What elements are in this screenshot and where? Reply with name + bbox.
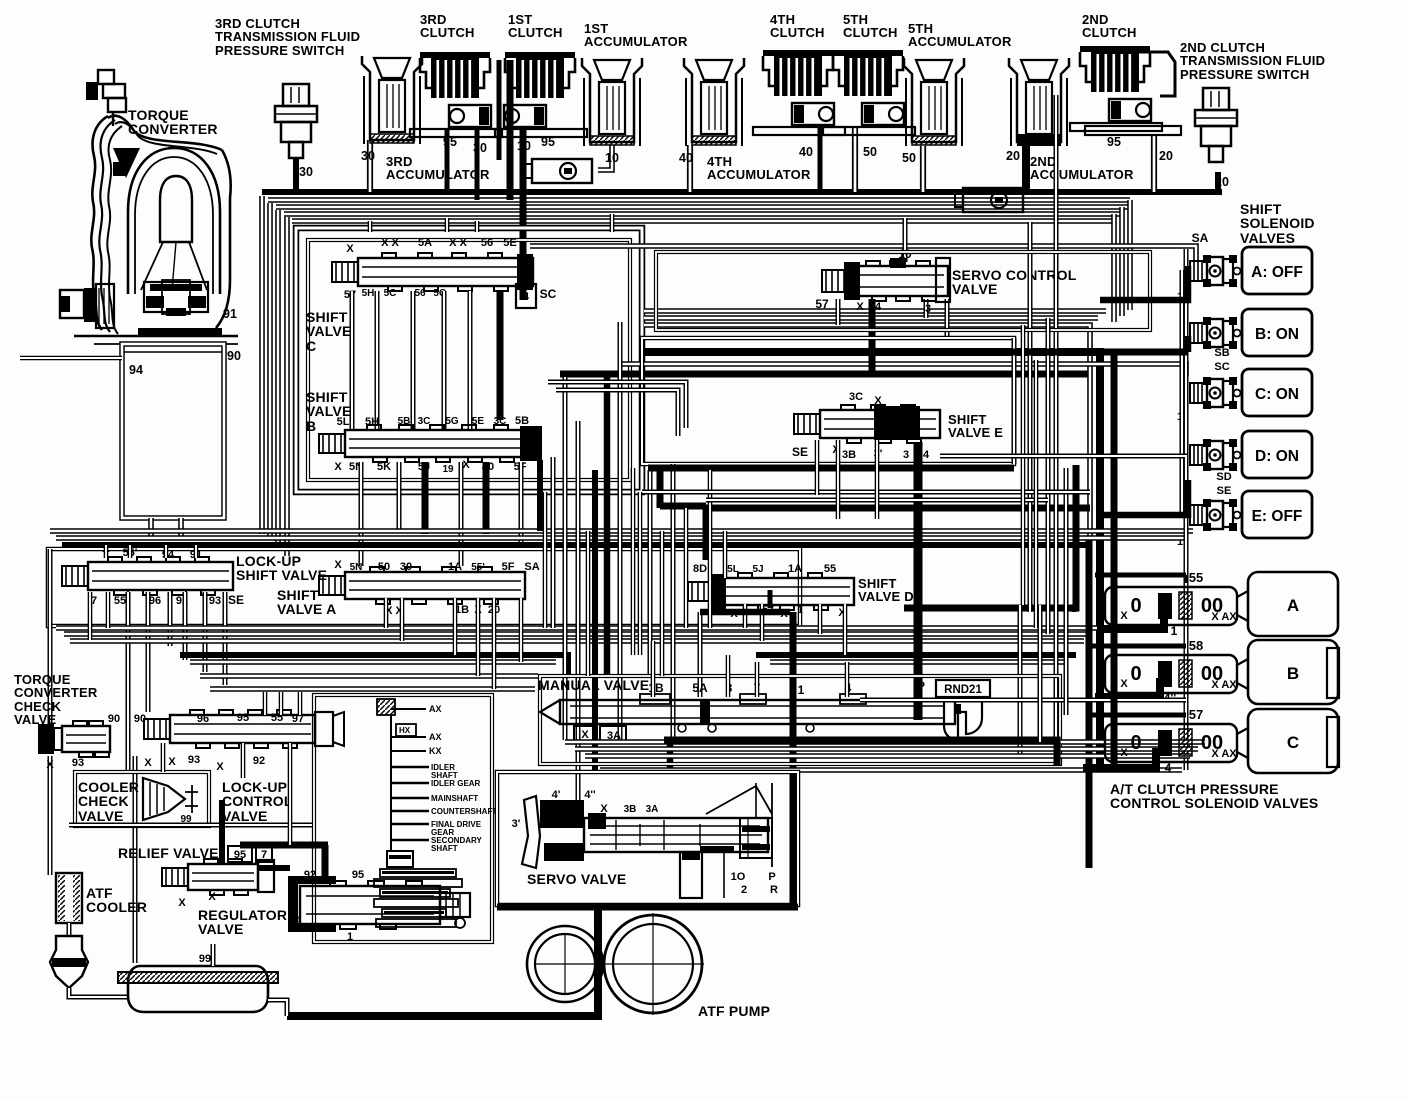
- svg-text:3C: 3C: [418, 416, 431, 427]
- wire thick 670 drop: [667, 739, 674, 772]
- svg-text:CONTROL: CONTROL: [222, 793, 293, 809]
- shift valve C: [332, 253, 533, 291]
- wire A drop 1: [384, 598, 389, 628]
- wire drop e: [223, 592, 228, 685]
- wire low bundle 7: [210, 686, 535, 692]
- wire B port 4: [459, 462, 464, 566]
- svg-text:P: P: [768, 871, 775, 883]
- box cooler check valve: [75, 772, 209, 826]
- svg-text:CLUTCH: CLUTCH: [508, 25, 563, 40]
- wire rv 1040: [1038, 605, 1043, 742]
- svg-text:3: 3: [903, 449, 909, 461]
- svg-text:96: 96: [197, 713, 209, 725]
- wire A drop 4: [476, 598, 481, 676]
- wire A drop 3: [453, 598, 458, 655]
- svg-text:ACCUMULATOR: ACCUMULATOR: [707, 167, 811, 182]
- wire mid bundle 3 thick: [62, 542, 1090, 548]
- 2nd accumulator: [1009, 58, 1069, 146]
- svg-text:92: 92: [304, 869, 316, 881]
- solenoid coil detail: [1203, 377, 1211, 385]
- wire cooler box bottom link: [69, 823, 312, 828]
- wire low bundle 5: [190, 659, 556, 665]
- wire scv bundle 2: [644, 315, 1098, 321]
- gear stack: [374, 845, 465, 928]
- pressure switch 3rd clutch: [275, 84, 317, 158]
- wire D drop 4: [843, 604, 848, 655]
- wire SD line: [940, 456, 1186, 470]
- wire mid vert 8: [671, 464, 676, 737]
- wire servo box bottom thick: [497, 904, 798, 911]
- wire reservoir out: [268, 1000, 287, 1016]
- svg-text:95: 95: [541, 135, 555, 149]
- svg-text:VALVE: VALVE: [222, 808, 268, 824]
- svg-text:30: 30: [361, 149, 375, 163]
- shaft COUNTERSHAFT: [391, 810, 429, 812]
- svg-text:P: P: [917, 679, 925, 693]
- svg-text:5F: 5F: [502, 561, 515, 573]
- svg-text:CLUTCH: CLUTCH: [843, 25, 898, 40]
- svg-text:55: 55: [824, 563, 836, 575]
- svg-text:X: X: [46, 759, 54, 771]
- svg-text:5G: 5G: [445, 416, 459, 427]
- box shift valve block outer: [296, 228, 642, 492]
- relief valve plug: [258, 860, 274, 892]
- svg-text:X: X: [874, 395, 882, 407]
- wire pcsv A drain thick: [1097, 610, 1164, 629]
- 2nd clutch arm: [1139, 52, 1175, 96]
- wire scv drop thick: [869, 299, 876, 374]
- cooler check valve: [143, 778, 198, 820]
- svg-text:PRESSURE SWITCH: PRESSURE SWITCH: [215, 43, 344, 58]
- svg-text:KX: KX: [429, 746, 442, 756]
- svg-text:SC: SC: [540, 287, 557, 301]
- svg-text:5H: 5H: [365, 416, 379, 428]
- manual valve X 3A ports: [574, 726, 596, 742]
- solenoid valve E: [1190, 491, 1312, 538]
- wire mv stub 4: [845, 662, 850, 697]
- RND21 box: [936, 680, 990, 697]
- wire 1st accumulator drop: [598, 145, 612, 170]
- wire low bundle 1: [56, 625, 1100, 631]
- svg-text:93: 93: [188, 754, 200, 766]
- wire lcv drop a: [263, 692, 268, 715]
- svg-text:57: 57: [1189, 707, 1203, 722]
- svg-text:AX: AX: [429, 732, 442, 742]
- svg-text:95: 95: [352, 869, 364, 881]
- svg-text:4'': 4'': [584, 789, 596, 801]
- 4th accumulator: [684, 58, 744, 146]
- box shift valve block inner: [308, 240, 630, 480]
- svg-text:CLUTCH: CLUTCH: [1082, 25, 1137, 40]
- wire cc 545: [543, 492, 548, 628]
- svg-text:TRANSMISSION FLUID: TRANSMISSION FLUID: [215, 29, 360, 44]
- wire A drop 5: [492, 598, 497, 689]
- svg-text:57: 57: [815, 297, 829, 311]
- box lock-up shift valve A: [48, 549, 800, 626]
- pcsv B tab: [1327, 648, 1339, 698]
- wire E drop 3B: [836, 440, 841, 519]
- wire rv 4: [1072, 608, 1077, 612]
- svg-text:C: C: [306, 338, 316, 354]
- 1st accumulator: [582, 58, 642, 146]
- wire manual valve drop thick: [790, 612, 797, 905]
- wire mid vert 12: [684, 508, 689, 628]
- wire rv 2: [1028, 222, 1033, 612]
- svg-text:X X: X X: [449, 237, 467, 249]
- svg-text:5K: 5K: [377, 461, 391, 473]
- wire drop a: [146, 592, 151, 712]
- wire thick 508 run: [706, 505, 1090, 512]
- wire mv low 4: [600, 767, 1182, 773]
- shaft label AX: [391, 736, 426, 738]
- wire mid vert 11: [660, 531, 665, 676]
- svg-text:20: 20: [1006, 149, 1020, 163]
- wire scv drop 1: [836, 299, 841, 325]
- wire 94 stub l: [148, 518, 154, 540]
- wire E drop SE: [815, 440, 820, 495]
- svg-text:TRANSMISSION FLUID: TRANSMISSION FLUID: [1180, 53, 1325, 68]
- wire pcsv B feed: [1090, 644, 1186, 649]
- hatched port: [377, 699, 395, 715]
- svg-text:SE: SE: [792, 445, 808, 459]
- wire stub 447: [445, 218, 450, 232]
- relief valve: [162, 859, 258, 895]
- wire solenoid D drain: [1097, 480, 1188, 515]
- wire mid vert 6: [618, 322, 623, 742]
- svg-text:ATF PUMP: ATF PUMP: [698, 1003, 770, 1019]
- wire y500 run: [706, 498, 1048, 503]
- wire pump suction thick: [287, 905, 598, 1016]
- wire E drop 3': [875, 440, 880, 519]
- svg-text:56: 56: [481, 237, 493, 249]
- wire thick connector 660: [657, 468, 664, 508]
- wire drop b: [168, 592, 173, 646]
- wire stub 612: [610, 214, 615, 232]
- pressure control solenoid valve C: [1105, 707, 1338, 773]
- svg-text:95: 95: [1107, 135, 1121, 149]
- tc check valve plug: [38, 724, 54, 754]
- wire low bundle 3: [70, 638, 1084, 644]
- wire E box right: [1012, 338, 1017, 464]
- wire lcv drop c: [298, 692, 303, 715]
- wire thick vert 918: [914, 442, 923, 720]
- box shift valve E: [642, 338, 1014, 464]
- svg-text:56: 56: [414, 288, 426, 299]
- wire 5th accumulator drop: [920, 146, 926, 192]
- wire 94 stub r: [178, 518, 184, 540]
- regulator valve: [288, 876, 470, 932]
- servo valve: [522, 783, 772, 898]
- svg-text:3: 3: [925, 303, 931, 315]
- svg-text:55: 55: [114, 595, 126, 607]
- wire mid bundle 1: [50, 528, 1193, 534]
- svg-text:X: X: [168, 756, 176, 768]
- shaft feed vertical: [390, 715, 392, 845]
- wire D drop 1: [743, 604, 748, 628]
- svg-text:SD: SD: [1216, 471, 1231, 483]
- svg-text:5B: 5B: [515, 415, 529, 427]
- svg-text:58: 58: [1189, 638, 1203, 653]
- wire C port 6: [497, 291, 504, 420]
- svg-text:0: 0: [1130, 595, 1141, 617]
- wire left bus upper: [48, 549, 53, 724]
- shift valve A: [319, 567, 525, 604]
- svg-text:X: X: [178, 897, 186, 909]
- wire rv thick 1114: [1111, 352, 1118, 770]
- svg-text:X: X: [334, 559, 342, 571]
- svg-text:1A: 1A: [788, 563, 802, 575]
- svg-text:C: ON: C: ON: [1255, 386, 1299, 403]
- svg-text:4: 4: [523, 291, 530, 303]
- svg-text:95: 95: [237, 712, 249, 724]
- svg-text:CONVERTER: CONVERTER: [14, 685, 98, 700]
- 4th clutch: [753, 50, 845, 135]
- wire pcsv B drain thick: [1095, 678, 1160, 697]
- svg-text:50: 50: [863, 145, 877, 159]
- HX box: [396, 724, 416, 736]
- wire left vertical 1: [259, 196, 265, 534]
- wire lu drop 55: [106, 592, 111, 628]
- wire B port 5: [483, 462, 490, 534]
- wire 3rd clutch 95 drop: [445, 128, 450, 192]
- wire 3rd switch drop: [293, 158, 299, 192]
- svg-text:COUNTERSHAFT: COUNTERSHAFT: [431, 807, 497, 816]
- wire stub: [594, 905, 602, 909]
- wire drop d: [203, 592, 208, 672]
- wire D drop 2: [760, 604, 765, 641]
- wire left vertical 3: [275, 210, 281, 546]
- wire left bus lower: [48, 756, 53, 875]
- svg-text:50: 50: [378, 561, 390, 573]
- svg-text:CONVERTER: CONVERTER: [128, 121, 218, 137]
- svg-text:X AX: X AX: [1211, 611, 1237, 623]
- svg-text:3C: 3C: [494, 416, 507, 427]
- svg-text:HX: HX: [399, 726, 411, 735]
- svg-text:1: 1: [347, 931, 353, 943]
- wire scv drop 3: [945, 299, 950, 338]
- wire scv bundle 3: [644, 325, 1090, 540]
- svg-text:VALVE: VALVE: [306, 323, 352, 339]
- wire stub 477: [475, 221, 480, 232]
- wire lu drop 7: [88, 592, 93, 640]
- svg-text:20: 20: [1159, 149, 1173, 163]
- svg-text:1: 1: [1171, 624, 1178, 638]
- svg-text:93: 93: [209, 595, 221, 607]
- svg-text:CLUTCH: CLUTCH: [770, 25, 825, 40]
- wire thick run to pcsv bus: [642, 352, 1100, 768]
- wire low bundle 4 thick: [180, 655, 568, 676]
- svg-text:SHIFT VALVE: SHIFT VALVE: [236, 567, 327, 583]
- svg-text:VALVES: VALVES: [1240, 230, 1295, 246]
- svg-text:VALVE E: VALVE E: [948, 425, 1003, 440]
- selector detent: [944, 700, 982, 740]
- svg-text:4: 4: [1165, 761, 1172, 775]
- svg-text:55: 55: [1189, 570, 1203, 585]
- wire 99 stub: [211, 944, 216, 966]
- wire 3rd accumulator drop: [367, 140, 373, 192]
- 2nd clutch: [1070, 46, 1162, 131]
- svg-text:E: OFF: E: OFF: [1252, 508, 1303, 525]
- wire lu stub 55: [128, 545, 133, 558]
- 3rd clutch: [410, 52, 502, 137]
- shift valve D: [688, 573, 854, 610]
- 5th clutch: [823, 50, 915, 135]
- wire top bundle 4: [292, 218, 1114, 224]
- wire mv low 3: [585, 753, 1190, 759]
- svg-text:4: 4: [923, 449, 930, 461]
- svg-text:VALVE: VALVE: [198, 921, 244, 937]
- svg-text:5E: 5E: [472, 416, 485, 427]
- svg-text:X: X: [856, 301, 864, 313]
- svg-text:19: 19: [442, 464, 454, 475]
- svg-text:30: 30: [400, 561, 412, 573]
- manual valve spool: [540, 694, 955, 732]
- svg-text:90: 90: [227, 349, 241, 363]
- svg-text:SA: SA: [1192, 231, 1209, 245]
- box gear shafts: [314, 695, 492, 942]
- svg-text:5L: 5L: [727, 564, 739, 575]
- svg-text:0: 0: [1130, 732, 1141, 754]
- svg-text:ACCUMULATOR: ACCUMULATOR: [908, 34, 1012, 49]
- svg-text:ACCUMULATOR: ACCUMULATOR: [386, 167, 490, 182]
- solenoid valve C: [1190, 369, 1312, 416]
- svg-text:COOLER: COOLER: [86, 899, 147, 915]
- wire B port 3: [422, 462, 429, 534]
- wire relief feed upper: [219, 800, 225, 830]
- relief valve 95 7 boxes: [228, 846, 252, 862]
- wire B port 6: [519, 462, 524, 545]
- svg-text:MANUAL VALVE: MANUAL VALVE: [538, 677, 649, 693]
- svg-text:1: 1: [296, 915, 302, 927]
- wire A drop 2: [400, 598, 405, 641]
- wire scv drop 2: [924, 299, 929, 318]
- 5th accumulator: [904, 58, 964, 146]
- wire B port 2: [397, 462, 402, 531]
- wire y492 run: [642, 490, 1090, 495]
- svg-text:1: 1: [797, 605, 803, 616]
- svg-text:2: 2: [741, 884, 747, 896]
- wire mid vert 7: [648, 470, 653, 676]
- wire low right bundle: [860, 698, 1186, 703]
- wire 5th clutch drop: [852, 128, 858, 192]
- wire mid vert 2: [563, 377, 568, 740]
- svg-text:8D: 8D: [693, 563, 707, 575]
- wire lc drop 3: [288, 743, 293, 845]
- svg-text:AX: AX: [429, 704, 442, 714]
- svg-text:X: X: [216, 761, 224, 773]
- wire lu stub 91: [194, 545, 199, 558]
- wire thick d-left: [700, 609, 790, 616]
- svg-text:3': 3': [512, 818, 521, 830]
- shaft IDLER: [391, 766, 429, 768]
- atf pump gear small: [527, 926, 603, 1002]
- wire drop c: [183, 592, 188, 660]
- svg-text:X: X: [334, 461, 342, 473]
- svg-text:40: 40: [679, 151, 693, 165]
- svg-text:5N: 5N: [350, 562, 363, 573]
- wire rv 1066: [1064, 468, 1069, 715]
- svg-text:99: 99: [199, 953, 211, 965]
- box servo valve: [497, 772, 798, 905]
- shaft SECONDARY: [391, 839, 429, 841]
- svg-text:55': 55': [471, 562, 485, 573]
- wire SA line: [530, 246, 1196, 262]
- svg-text:3A: 3A: [646, 804, 659, 815]
- wire main supply bus: [262, 189, 1222, 195]
- port 4 SC: [516, 284, 536, 308]
- svg-text:X: X: [1120, 747, 1128, 759]
- wire lc drop 2: [241, 743, 246, 778]
- svg-text:SA: SA: [524, 561, 539, 573]
- shift valve E black center: [874, 406, 920, 440]
- torque converter check valve: [62, 721, 110, 757]
- wire stub a: [1184, 575, 1189, 583]
- svg-text:X: X: [144, 757, 152, 769]
- 3rd accumulator: [362, 56, 422, 144]
- svg-text:CLUTCH: CLUTCH: [420, 25, 475, 40]
- atf pump gear large: [604, 915, 702, 1013]
- wire C port 2: [375, 291, 380, 430]
- wire pcsv A feed: [1095, 573, 1186, 578]
- svg-text:VALVE A: VALVE A: [277, 601, 336, 617]
- svg-text:94: 94: [129, 363, 143, 377]
- reservoir: [118, 966, 278, 1012]
- svg-text:3B: 3B: [624, 804, 637, 815]
- wire low bundle 2: [64, 631, 1092, 637]
- svg-text:5C: 5C: [384, 288, 397, 299]
- solenoid coil detail: [1203, 439, 1211, 447]
- solenoid coil detail: [1203, 255, 1211, 263]
- svg-text:X: X: [1120, 610, 1128, 622]
- svg-text:MAINSHAFT: MAINSHAFT: [431, 794, 478, 803]
- wire center column 2: [497, 60, 502, 160]
- wire elbow 2: [556, 390, 678, 436]
- svg-text:SE: SE: [228, 593, 244, 607]
- atf cooler: [56, 873, 82, 923]
- svg-text:C: C: [1287, 733, 1299, 752]
- wire left bus 2: [133, 756, 138, 963]
- wire solenoid A drain: [1100, 266, 1188, 300]
- wire regulator feed: [322, 845, 329, 882]
- svg-text:B: ON: B: ON: [1255, 326, 1299, 343]
- svg-text:10: 10: [605, 151, 619, 165]
- wire right vertical 3: [1111, 214, 1117, 322]
- wire scv 10 drop: [903, 218, 908, 262]
- svg-text:CONTROL SOLENOID VALVES: CONTROL SOLENOID VALVES: [1110, 795, 1318, 811]
- wire relief reg link: [258, 865, 290, 871]
- svg-text:VALVE D: VALVE D: [858, 589, 914, 604]
- wire mid vert 3: [576, 421, 581, 800]
- check valve orifice 2: [955, 188, 1023, 212]
- wire cc 640: [638, 492, 643, 655]
- svg-text:30: 30: [299, 165, 313, 179]
- wire mid vert 14: [723, 531, 728, 578]
- wire thick 506 ext: [660, 503, 706, 510]
- svg-text:4': 4': [552, 789, 561, 801]
- lock-up control valve: [144, 710, 315, 748]
- wire mid bundle 2: [56, 535, 1186, 541]
- wire 2nd accumulator drop: [1022, 142, 1030, 192]
- shift valve B: [319, 425, 535, 462]
- wire mid vert 10: [631, 468, 636, 655]
- svg-text:5L: 5L: [337, 416, 350, 428]
- svg-text:0: 0: [1130, 663, 1141, 685]
- wire 90 line: [20, 356, 122, 361]
- wire mid vert 4 thick: [592, 470, 598, 772]
- wire 2nd clutch drop: [1151, 134, 1157, 192]
- svg-text:30: 30: [473, 141, 487, 155]
- torque converter: [60, 70, 238, 352]
